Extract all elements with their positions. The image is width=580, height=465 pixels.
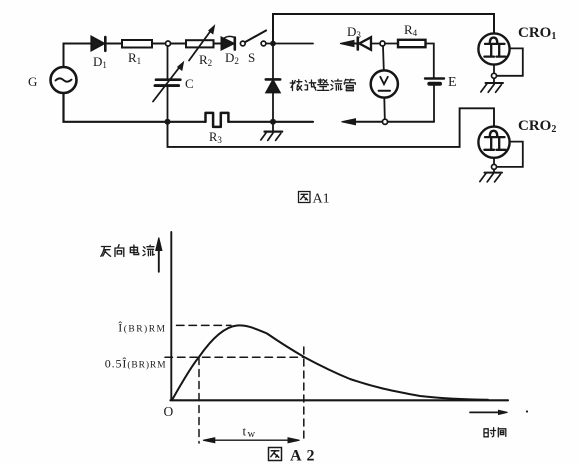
向 xyxy=(115,245,124,257)
svg-text:Î(BR)RM: Î(BR)RM xyxy=(118,321,166,335)
svg-text:G: G xyxy=(28,74,37,89)
label under test xyxy=(290,79,355,91)
label: reverse current xyxy=(101,245,154,257)
svg-text:A2: A2 xyxy=(290,448,320,465)
流 xyxy=(331,81,333,90)
diode D1 xyxy=(92,37,104,50)
CRO1 xyxy=(478,33,509,64)
wire R1 to node xyxy=(152,43,165,45)
diode D3 xyxy=(356,38,359,50)
svg-text:O: O xyxy=(164,404,174,419)
wire D1 to R1 xyxy=(107,43,123,45)
svg-text:E: E xyxy=(448,75,457,90)
resistor R1 xyxy=(122,40,152,48)
node (open) above voltmeter xyxy=(380,41,385,46)
wire node to R4 xyxy=(385,43,398,45)
wire junction up and top rail to CRO1 xyxy=(273,14,494,44)
wire G top to D1 xyxy=(64,44,91,68)
wire R4 to battery xyxy=(426,44,434,78)
wire D3 to node xyxy=(371,43,380,45)
node (open) under voltmeter xyxy=(382,119,387,124)
tw double arrow xyxy=(203,438,300,443)
resistor R4 xyxy=(398,40,426,47)
svg-text:R4: R4 xyxy=(404,22,418,38)
junction node at DUT top xyxy=(270,41,276,47)
试 xyxy=(305,81,308,90)
peak dashed level xyxy=(177,324,232,326)
y-axis xyxy=(170,232,172,400)
wire S to junction xyxy=(266,43,270,45)
时 xyxy=(484,429,488,437)
axis label arrow (reverse current) xyxy=(158,247,160,272)
svg-text:t: t xyxy=(243,424,247,439)
反 xyxy=(101,247,111,257)
caption A2 xyxy=(269,448,282,461)
current pulse curve xyxy=(172,325,488,400)
resistor R3 (inline loop style) xyxy=(206,113,229,127)
svg-text:0.5Î(BR)RM: 0.5Î(BR)RM xyxy=(105,357,167,371)
right dashed vertical xyxy=(303,347,305,443)
junction node C bottom xyxy=(165,119,171,125)
battery E xyxy=(425,77,444,79)
svg-text:S: S xyxy=(248,50,255,65)
svg-text:R2: R2 xyxy=(199,52,212,68)
bottom rail xyxy=(64,93,314,122)
整 xyxy=(318,79,327,84)
wire junction right xyxy=(276,43,313,45)
device under test (rectifier) xyxy=(272,46,274,78)
svg-text:R1: R1 xyxy=(128,50,141,66)
node (open) at top of C branch xyxy=(166,41,171,46)
current arrow (left) on top wire xyxy=(340,40,354,46)
half dashed level xyxy=(165,356,304,358)
svg-text:D1: D1 xyxy=(93,54,107,70)
svg-text:D3: D3 xyxy=(347,24,361,40)
svg-text:w: w xyxy=(248,429,256,440)
generator G xyxy=(51,67,77,93)
间 xyxy=(498,428,506,437)
diode D2 xyxy=(222,38,234,50)
管 xyxy=(345,79,354,81)
svg-text:C: C xyxy=(185,76,194,91)
voltmeter V xyxy=(382,46,385,70)
capacitor C (variable) xyxy=(167,46,169,78)
svg-text:D2: D2 xyxy=(225,50,239,66)
ground under DUT xyxy=(272,124,274,131)
time axis arrow xyxy=(470,411,500,413)
caption A1 xyxy=(299,192,311,203)
svg-text:R3: R3 xyxy=(209,130,222,145)
CRO2 xyxy=(478,127,509,158)
x-axis xyxy=(170,399,508,401)
switch S xyxy=(240,41,245,46)
被 xyxy=(290,81,295,91)
svg-text:CRO2: CRO2 xyxy=(518,118,556,135)
流 xyxy=(143,247,145,256)
电 xyxy=(130,245,138,255)
bottom wire of meter loop with left arrow xyxy=(342,119,356,125)
wire node to R2 xyxy=(171,43,186,45)
svg-text:A1: A1 xyxy=(313,192,330,207)
wire R2 to D2 xyxy=(214,43,222,45)
wire to CRO2 (long) xyxy=(168,108,495,147)
label: time xyxy=(484,428,506,437)
variable resistor R2 xyxy=(186,40,214,47)
junction node DUT bottom xyxy=(270,119,276,125)
svg-text:CRO1: CRO1 xyxy=(518,25,556,42)
left dashed vertical xyxy=(198,358,200,444)
